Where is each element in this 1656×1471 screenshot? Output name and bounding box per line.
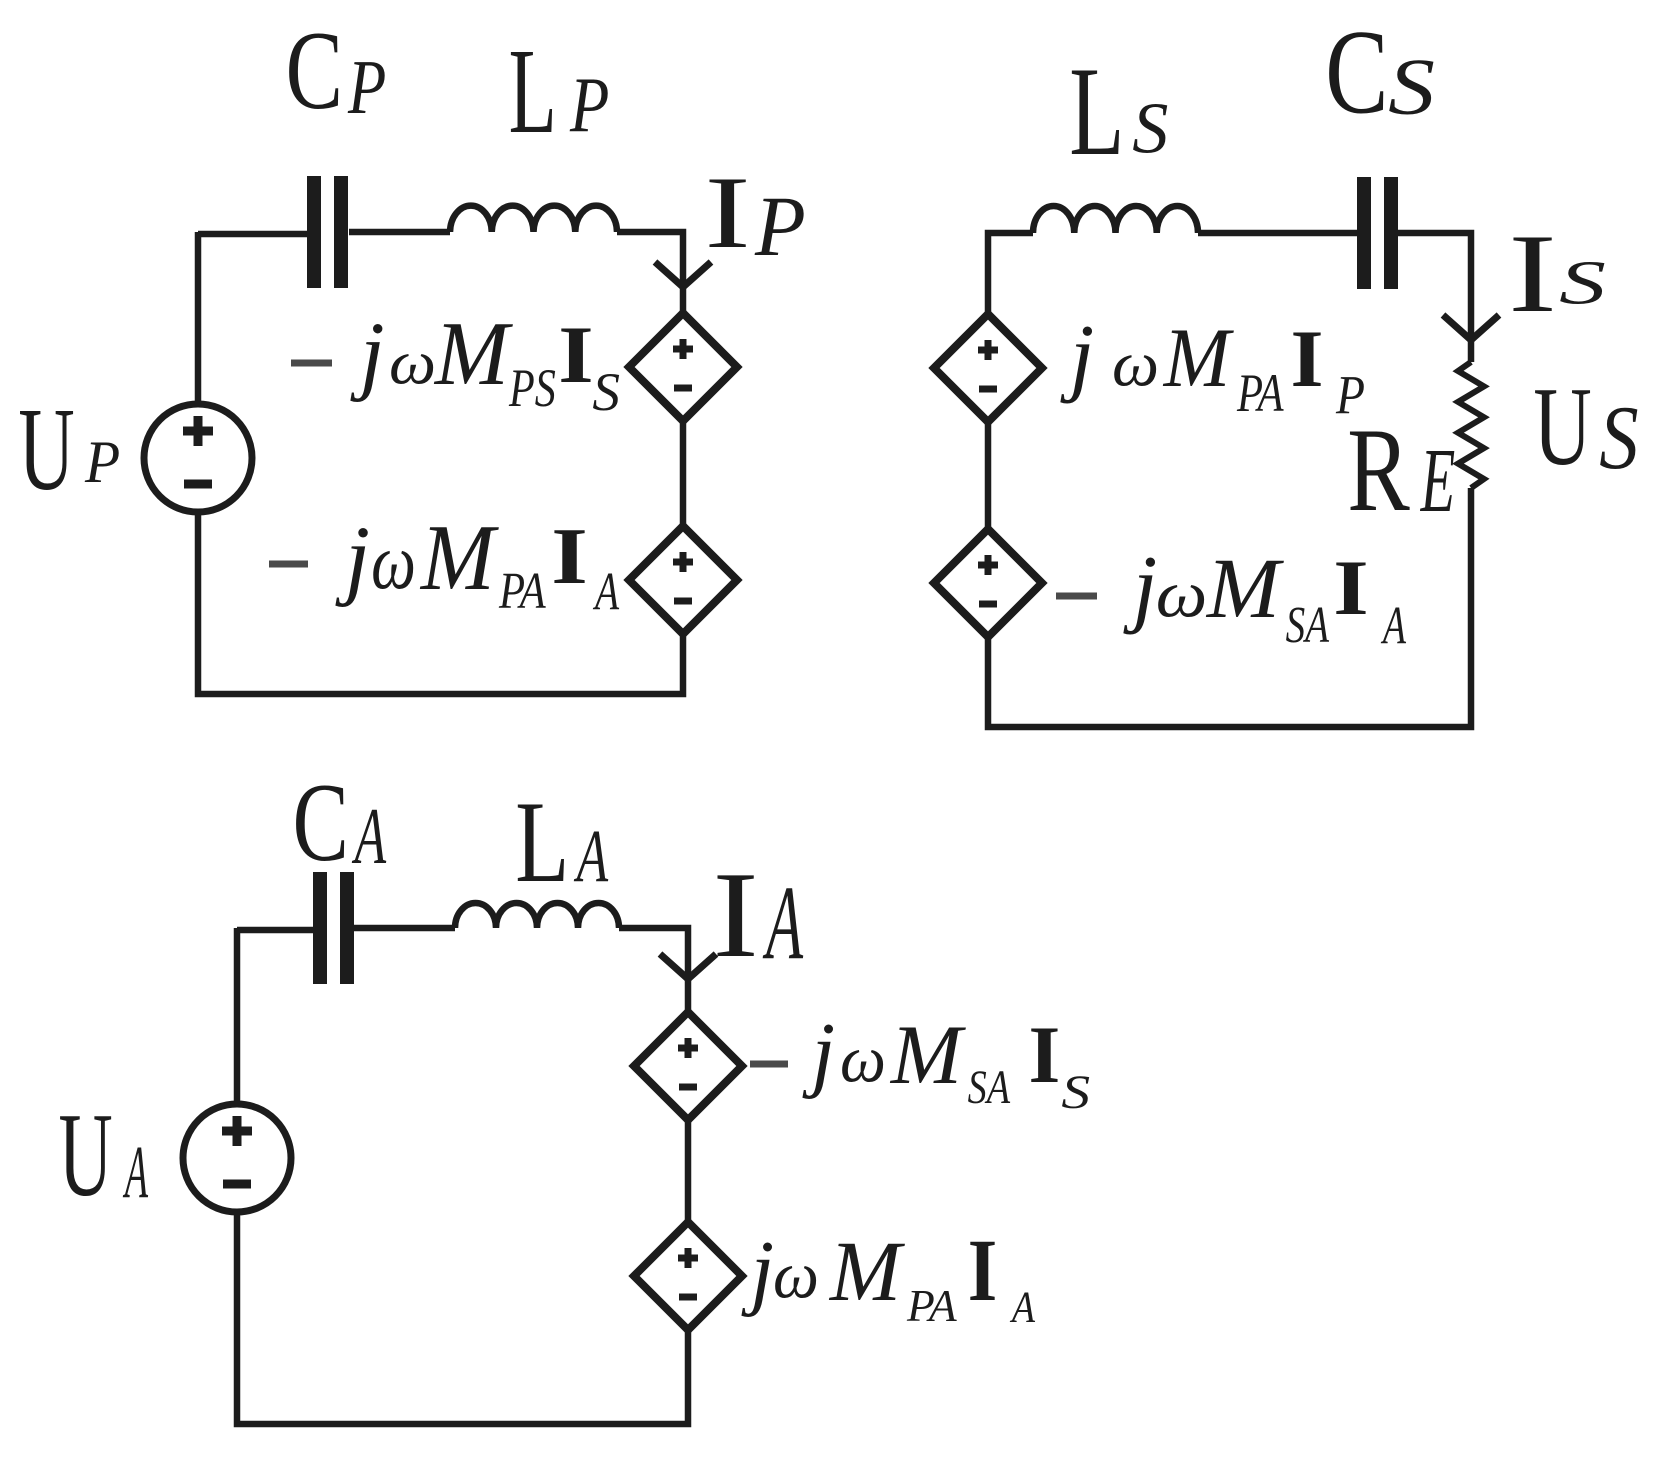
svg-text:P: P: [754, 180, 806, 275]
svg-text:A: A: [122, 1130, 148, 1213]
svg-text:S: S: [1388, 41, 1435, 130]
svg-text:I: I: [705, 156, 751, 270]
svg-text:ω: ω: [773, 1239, 819, 1313]
svg-text:ω: ω: [389, 327, 436, 397]
svg-text:I: I: [1508, 212, 1557, 336]
svg-text:S: S: [592, 362, 620, 422]
svg-text:I: I: [1333, 545, 1368, 632]
svg-text:A: A: [592, 563, 619, 622]
svg-text:SA: SA: [968, 1062, 1011, 1114]
svg-text:U: U: [59, 1088, 113, 1221]
svg-text:M: M: [1163, 311, 1235, 405]
svg-text:L: L: [509, 25, 557, 159]
svg-text:I: I: [551, 511, 588, 600]
svg-text:M: M: [890, 1008, 966, 1102]
svg-text:I: I: [1291, 314, 1324, 404]
svg-text:S: S: [1061, 1066, 1090, 1118]
svg-text:L: L: [515, 778, 569, 907]
svg-text:C: C: [293, 761, 349, 884]
svg-text:ω: ω: [1156, 558, 1208, 631]
svg-text:E: E: [1420, 432, 1455, 532]
svg-text:U: U: [1533, 365, 1591, 489]
svg-text:S: S: [1132, 87, 1168, 168]
svg-text:U: U: [18, 384, 74, 515]
svg-text:PA: PA: [906, 1280, 957, 1331]
svg-text:C: C: [286, 8, 343, 132]
svg-text:L: L: [1069, 40, 1124, 182]
svg-text:I: I: [1029, 1009, 1061, 1100]
svg-text:P: P: [347, 45, 386, 131]
svg-text:ω: ω: [840, 1023, 886, 1097]
svg-text:ω: ω: [371, 518, 416, 606]
svg-text:P: P: [84, 429, 120, 495]
svg-text:ω: ω: [1112, 329, 1159, 400]
svg-text:PS: PS: [508, 359, 556, 418]
svg-text:P: P: [1335, 365, 1365, 426]
svg-text:M: M: [433, 304, 513, 404]
svg-text:M: M: [419, 506, 500, 610]
svg-text:S: S: [1599, 388, 1638, 489]
svg-text:M: M: [1205, 541, 1285, 636]
svg-text:M: M: [829, 1224, 906, 1319]
svg-text:I: I: [713, 847, 759, 983]
svg-text:A: A: [1380, 597, 1406, 656]
svg-text:P: P: [569, 61, 609, 148]
svg-text:S: S: [1559, 249, 1606, 318]
svg-text:SA: SA: [1286, 596, 1330, 653]
svg-text:A: A: [762, 864, 803, 982]
svg-text:A: A: [352, 791, 387, 880]
svg-text:PA: PA: [498, 563, 547, 620]
svg-text:C: C: [1325, 6, 1388, 140]
svg-text:I: I: [558, 309, 593, 400]
svg-text:A: A: [1009, 1282, 1036, 1332]
svg-text:I: I: [968, 1220, 997, 1319]
svg-text:PA: PA: [1236, 362, 1284, 423]
svg-text:A: A: [573, 813, 608, 897]
